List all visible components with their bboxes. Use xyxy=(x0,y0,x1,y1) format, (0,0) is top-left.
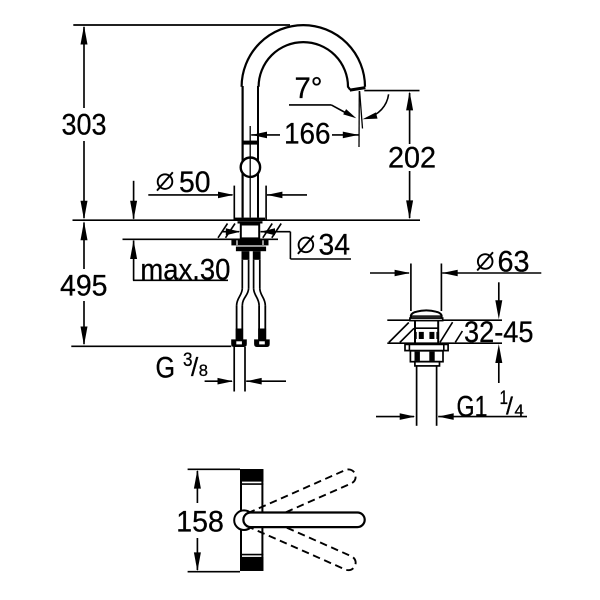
svg-text:8: 8 xyxy=(199,362,208,380)
svg-text:32-45: 32-45 xyxy=(464,316,534,349)
svg-text:50: 50 xyxy=(179,166,211,199)
svg-text:7°: 7° xyxy=(295,72,323,105)
svg-text:/: / xyxy=(191,352,199,382)
svg-text:34: 34 xyxy=(319,229,351,262)
svg-text:166: 166 xyxy=(284,117,331,150)
svg-text:G: G xyxy=(156,352,176,385)
svg-text:495: 495 xyxy=(60,270,108,303)
svg-text:158: 158 xyxy=(176,506,224,539)
svg-text:4: 4 xyxy=(515,402,524,420)
svg-text:/: / xyxy=(506,392,513,420)
svg-text:max.30: max.30 xyxy=(140,254,230,287)
svg-text:G1: G1 xyxy=(457,390,488,423)
svg-text:303: 303 xyxy=(62,109,107,142)
svg-text:63: 63 xyxy=(498,245,530,278)
svg-text:202: 202 xyxy=(388,142,436,175)
